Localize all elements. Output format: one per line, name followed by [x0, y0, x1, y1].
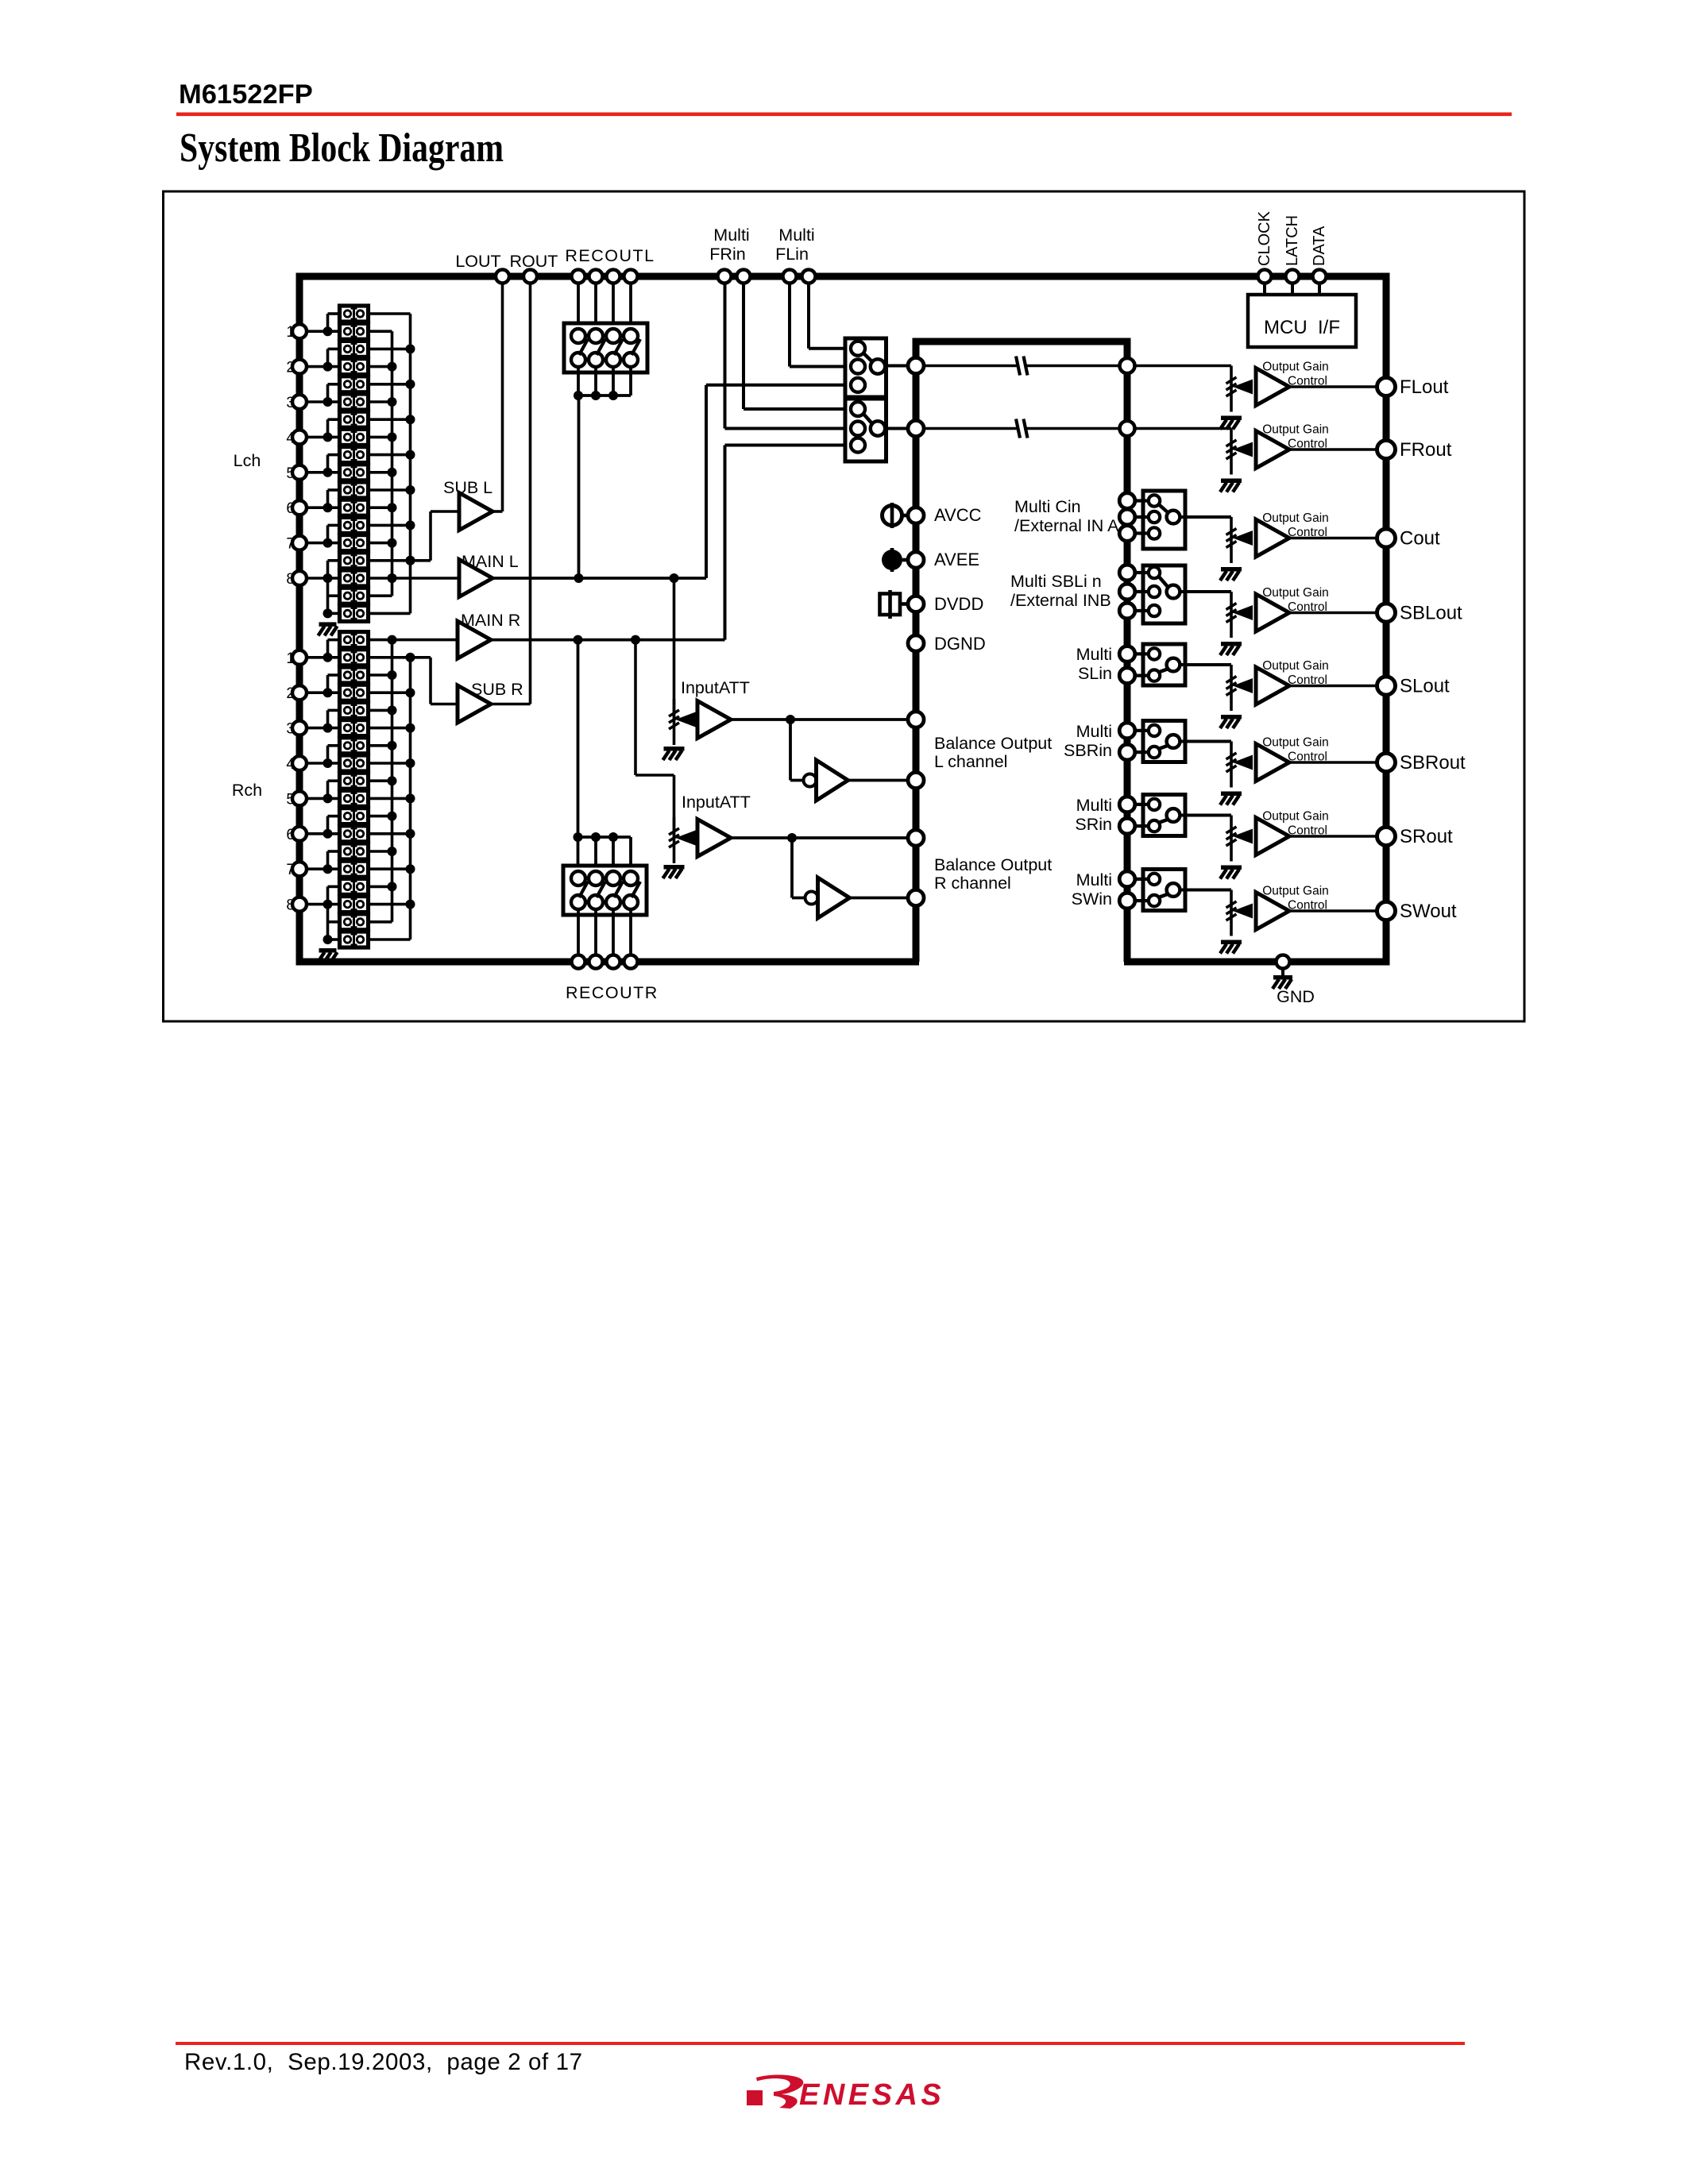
svg-text:Output Gain: Output Gain [1262, 423, 1329, 437]
pin DVDD [908, 596, 924, 612]
svg-text:Multi: Multi [1076, 645, 1112, 664]
svg-text:LOUT: LOUT [455, 252, 500, 271]
svg-text:Control: Control [1288, 824, 1327, 838]
svg-text:Output Gain: Output Gain [1262, 885, 1329, 898]
wire FR selector out [884, 427, 909, 430]
wire MAIN R to FR selector [724, 446, 727, 640]
svg-text:System Block Diagram: System Block Diagram [180, 125, 504, 171]
svg-text:6: 6 [286, 500, 295, 517]
svg-text:SLin: SLin [1078, 664, 1112, 683]
svg-text:AVCC: AVCC [934, 505, 982, 525]
svg-text:Output Gain: Output Gain [1262, 511, 1329, 525]
wire SUB L out to LOUT [492, 510, 503, 513]
wires RECOUTL pins down [577, 283, 580, 330]
op-amp MAIN R [458, 621, 491, 658]
Rch pins 1-8 [292, 650, 307, 665]
svg-text:SRin: SRin [1075, 815, 1112, 834]
wire DATA stub [1318, 283, 1321, 295]
svg-text:R channel: R channel [934, 874, 1011, 893]
op-amp MAIN L [459, 560, 492, 597]
selector box Multi SBLin/External INB [1143, 565, 1185, 623]
svg-text:Control: Control [1288, 375, 1327, 388]
svg-text:M61522FP: M61522FP [179, 79, 313, 110]
wire FLin-A down [807, 283, 810, 349]
svg-text:LATCH: LATCH [1284, 215, 1301, 266]
wire FLin-B down [788, 283, 791, 367]
svg-text:8: 8 [286, 897, 295, 914]
svg-text:8: 8 [286, 571, 295, 588]
svg-text:Multi: Multi [1076, 870, 1112, 889]
svg-text:CLOCK: CLOCK [1256, 210, 1273, 266]
IC outline (thick) [299, 276, 1386, 962]
selector box FR (Multi FRin / MAIN R) [845, 399, 886, 461]
pin balance R+ [908, 830, 924, 846]
svg-text:FLin: FLin [775, 245, 809, 264]
output gain control channel Cout [1230, 517, 1233, 563]
wire CLOCK stub [1263, 283, 1266, 295]
svg-text:Multi Cin: Multi Cin [1014, 497, 1081, 516]
switch box RECOUTR [563, 866, 647, 915]
pin balance L+ [908, 712, 924, 727]
control block outline (thick, open bottom) [916, 341, 1127, 962]
svg-text:1: 1 [286, 324, 295, 341]
svg-text:5: 5 [286, 465, 295, 482]
RECOUTR bottom pins [572, 955, 585, 969]
Lch input switch matrix (18 cells) [340, 306, 369, 322]
svg-text:/External IN A: /External IN A [1014, 516, 1119, 535]
svg-text:Rev.1.0, Sep.19.2003, page 2: Rev.1.0, Sep.19.2003, page 2 of 17 [184, 2049, 583, 2075]
output gain control channel SBLout [1230, 592, 1233, 638]
wire balance L- row [848, 779, 910, 782]
Rch matrix right bus wiring (MAIN/SUB buses) [369, 639, 392, 642]
attenuator InputATT-L [673, 699, 676, 745]
svg-text:Multi SBLi n: Multi SBLi n [1010, 572, 1102, 591]
Renesas logo [747, 2074, 944, 2112]
output gain control channel FRout [1120, 421, 1135, 436]
svg-text:Output Gain: Output Gain [1262, 659, 1329, 673]
wire SUB L input tap [411, 559, 431, 562]
wire FL row inside control block + coupling cap [923, 365, 1018, 367]
wire MAIN R input [392, 639, 458, 642]
wire balance R+ row [731, 836, 909, 839]
svg-text:SLout: SLout [1400, 676, 1450, 697]
svg-text:Cout: Cout [1400, 528, 1440, 550]
svg-text:Balance Output: Balance Output [934, 734, 1052, 753]
power symbol AVCC [883, 506, 902, 526]
wire InputATT-L feed [673, 578, 676, 720]
svg-text:RECOUTR: RECOUTR [566, 983, 659, 1002]
svg-text:1: 1 [286, 650, 295, 667]
svg-text:6: 6 [286, 827, 295, 843]
wire balance L+ row [731, 718, 909, 721]
attenuator InputATT-R [673, 817, 676, 863]
red header rule [176, 113, 1512, 117]
wire FRin-A down [742, 283, 745, 409]
selector box Multi SWin [1143, 870, 1185, 911]
wire RECOUTL trunk down to MAIN L row [577, 396, 581, 578]
wire MAIN L output row [492, 577, 706, 580]
svg-text:/External INB: /External INB [1010, 591, 1111, 610]
wire MAIN L input [392, 577, 460, 580]
wire MAIN L to FL selector [705, 385, 708, 578]
wire to inverter R [790, 838, 794, 898]
selector box Multi SLin [1143, 644, 1185, 685]
svg-text:Output Gain: Output Gain [1262, 586, 1329, 600]
wire to inverter L [789, 720, 792, 781]
svg-text:Control: Control [1288, 751, 1327, 764]
svg-text:3: 3 [286, 395, 295, 411]
power symbol DVDD [880, 594, 901, 615]
wire SUB R input tap [406, 653, 415, 662]
svg-text:SBRin: SBRin [1064, 741, 1112, 760]
selector box Multi Cin/External INA [1143, 491, 1185, 549]
svg-text:SUB L: SUB L [443, 478, 492, 497]
op-amp SUB L [459, 493, 492, 531]
wires RECOUTR bus [578, 835, 632, 839]
pin DGND [908, 635, 924, 651]
op-amp InputATT-L [697, 701, 731, 739]
wire LATCH stub [1291, 283, 1294, 295]
output gain control channel FLout [1120, 358, 1135, 373]
wires RECOUTL box to bus [577, 365, 580, 396]
wire FR row inside control block + coupling cap [923, 427, 1018, 430]
output gain control channel SWout [1230, 890, 1233, 936]
top edge pins [496, 270, 509, 284]
svg-text:AVEE: AVEE [934, 550, 979, 569]
pin balance R- [908, 890, 924, 906]
svg-text:Output Gain: Output Gain [1262, 736, 1329, 750]
output gain control channel SBRout [1230, 742, 1233, 788]
svg-text:SWin: SWin [1072, 889, 1112, 909]
svg-text:Multi: Multi [713, 226, 749, 245]
svg-text:RECOUTL: RECOUTL [565, 246, 655, 265]
svg-text:Multi: Multi [1076, 722, 1112, 741]
svg-text:Control: Control [1288, 526, 1327, 539]
inverter balance L- [804, 774, 817, 787]
svg-text:SWout: SWout [1400, 901, 1457, 922]
svg-text:Control: Control [1288, 600, 1327, 614]
pin FR row (control block left) [908, 421, 924, 437]
wire FRin-B down [724, 283, 727, 429]
Lch matrix right bus wiring (MAIN/SUB buses) [369, 312, 411, 315]
wire RECOUTR trunk from MAIN R row [577, 640, 580, 837]
inverter balance R- [805, 892, 818, 905]
Lch matrix left pin wiring + junction dots [299, 330, 340, 333]
selector box Multi SRin [1143, 795, 1185, 836]
wire balance R- row [850, 897, 910, 900]
pin AVEE [908, 552, 924, 568]
pin balance L- [908, 773, 924, 789]
svg-text:Multi: Multi [1076, 796, 1112, 815]
svg-text:Control: Control [1288, 438, 1327, 451]
selector box Multi SBRin [1143, 721, 1185, 762]
svg-text:FRin: FRin [709, 245, 745, 264]
svg-text:7: 7 [286, 862, 295, 878]
svg-text:Control: Control [1288, 673, 1327, 687]
svg-text:Control: Control [1288, 899, 1327, 913]
svg-text:Output Gain: Output Gain [1262, 810, 1329, 824]
diagram outer frame [164, 191, 1525, 1021]
wire MAIN R output row [491, 639, 725, 642]
svg-text:7: 7 [286, 536, 295, 553]
GND pin + ground symbol [1277, 955, 1290, 969]
wires RECOUTR box to bottom pins [577, 909, 580, 958]
svg-text:4: 4 [286, 756, 295, 773]
selector box FL (Multi FLin / MAIN L) [845, 338, 886, 397]
output gain control channel SLout [1230, 665, 1233, 711]
svg-text:Rch: Rch [232, 781, 262, 800]
Rch matrix left pin wiring + junction dots [299, 656, 340, 659]
svg-text:MCU I/F: MCU I/F [1264, 317, 1340, 338]
svg-text:FLout: FLout [1400, 376, 1449, 398]
switch box RECOUTL [564, 323, 647, 372]
op-amp InputATT-R [697, 820, 731, 857]
svg-text:DGND: DGND [934, 634, 986, 654]
svg-text:DVDD: DVDD [934, 594, 983, 614]
wire InputATT-R feed [634, 640, 637, 775]
op-amp SUB R [458, 685, 491, 723]
svg-text:SBRout: SBRout [1400, 752, 1466, 774]
svg-text:FRout: FRout [1400, 439, 1452, 461]
Lch pins 1-8 [292, 324, 307, 338]
wire SUB R out to ROUT [491, 703, 531, 706]
svg-text:L channel: L channel [934, 752, 1007, 771]
Rch input switch matrix (18 cells) [340, 632, 369, 648]
MCU I/F block [1248, 295, 1356, 347]
output gain control channel SRout [1230, 816, 1233, 862]
svg-text:Multi: Multi [778, 226, 814, 245]
svg-text:2: 2 [286, 685, 295, 702]
svg-text:Output Gain: Output Gain [1262, 361, 1329, 374]
pin FL row (control block left) [908, 358, 924, 374]
svg-text:DATA: DATA [1311, 226, 1328, 266]
svg-text:Balance Output: Balance Output [934, 855, 1052, 874]
pin AVCC [908, 507, 924, 523]
svg-text:ROUT: ROUT [510, 252, 558, 271]
svg-text:ENESAS: ENESAS [799, 2078, 944, 2112]
svg-text:5: 5 [286, 791, 295, 808]
svg-text:SBLout: SBLout [1400, 603, 1462, 624]
svg-text:2: 2 [286, 360, 295, 376]
svg-text:3: 3 [286, 721, 295, 738]
power symbol AVEE [882, 550, 902, 570]
svg-text:Lch: Lch [234, 451, 261, 470]
red footer rule [176, 2042, 1465, 2045]
svg-text:SRout: SRout [1400, 826, 1453, 847]
svg-text:InputATT: InputATT [681, 678, 750, 697]
svg-text:InputATT: InputATT [682, 793, 751, 812]
svg-text:GND: GND [1277, 987, 1315, 1006]
svg-text:4: 4 [286, 430, 295, 446]
wire FL selector out [884, 365, 909, 368]
